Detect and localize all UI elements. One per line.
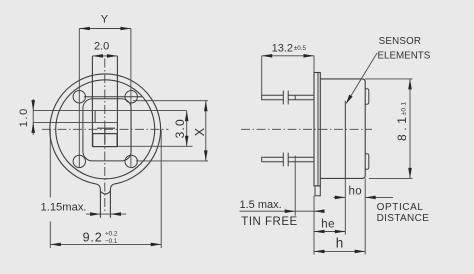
svg-text:13.2: 13.2 — [272, 42, 293, 54]
svg-text:TIN FREE: TIN FREE — [241, 216, 297, 228]
svg-text:−0.1: −0.1 — [105, 238, 118, 245]
svg-text:X: X — [193, 127, 207, 136]
svg-text:9.2: 9.2 — [83, 230, 103, 244]
svg-text:SENSOR: SENSOR — [379, 36, 422, 47]
svg-text:1.15max.: 1.15max. — [41, 201, 87, 213]
svg-text:1.0: 1.0 — [18, 107, 30, 127]
svg-text:Y: Y — [101, 13, 109, 25]
svg-text:±0.1: ±0.1 — [400, 102, 407, 116]
svg-text:ho: ho — [349, 185, 362, 197]
svg-text:h: h — [336, 236, 344, 251]
svg-text:+0.2: +0.2 — [105, 231, 118, 238]
svg-text:he: he — [321, 218, 335, 230]
svg-text:±0.5: ±0.5 — [294, 45, 307, 52]
svg-text:8.1: 8.1 — [395, 114, 409, 141]
svg-text:DISTANCE: DISTANCE — [377, 213, 430, 224]
svg-text:2.0: 2.0 — [94, 40, 109, 52]
svg-text:OPTICAL: OPTICAL — [377, 202, 424, 213]
svg-text:3.0: 3.0 — [173, 118, 187, 138]
svg-text:ELEMENTS: ELEMENTS — [378, 51, 431, 62]
svg-text:1.5 max.: 1.5 max. — [240, 199, 282, 211]
